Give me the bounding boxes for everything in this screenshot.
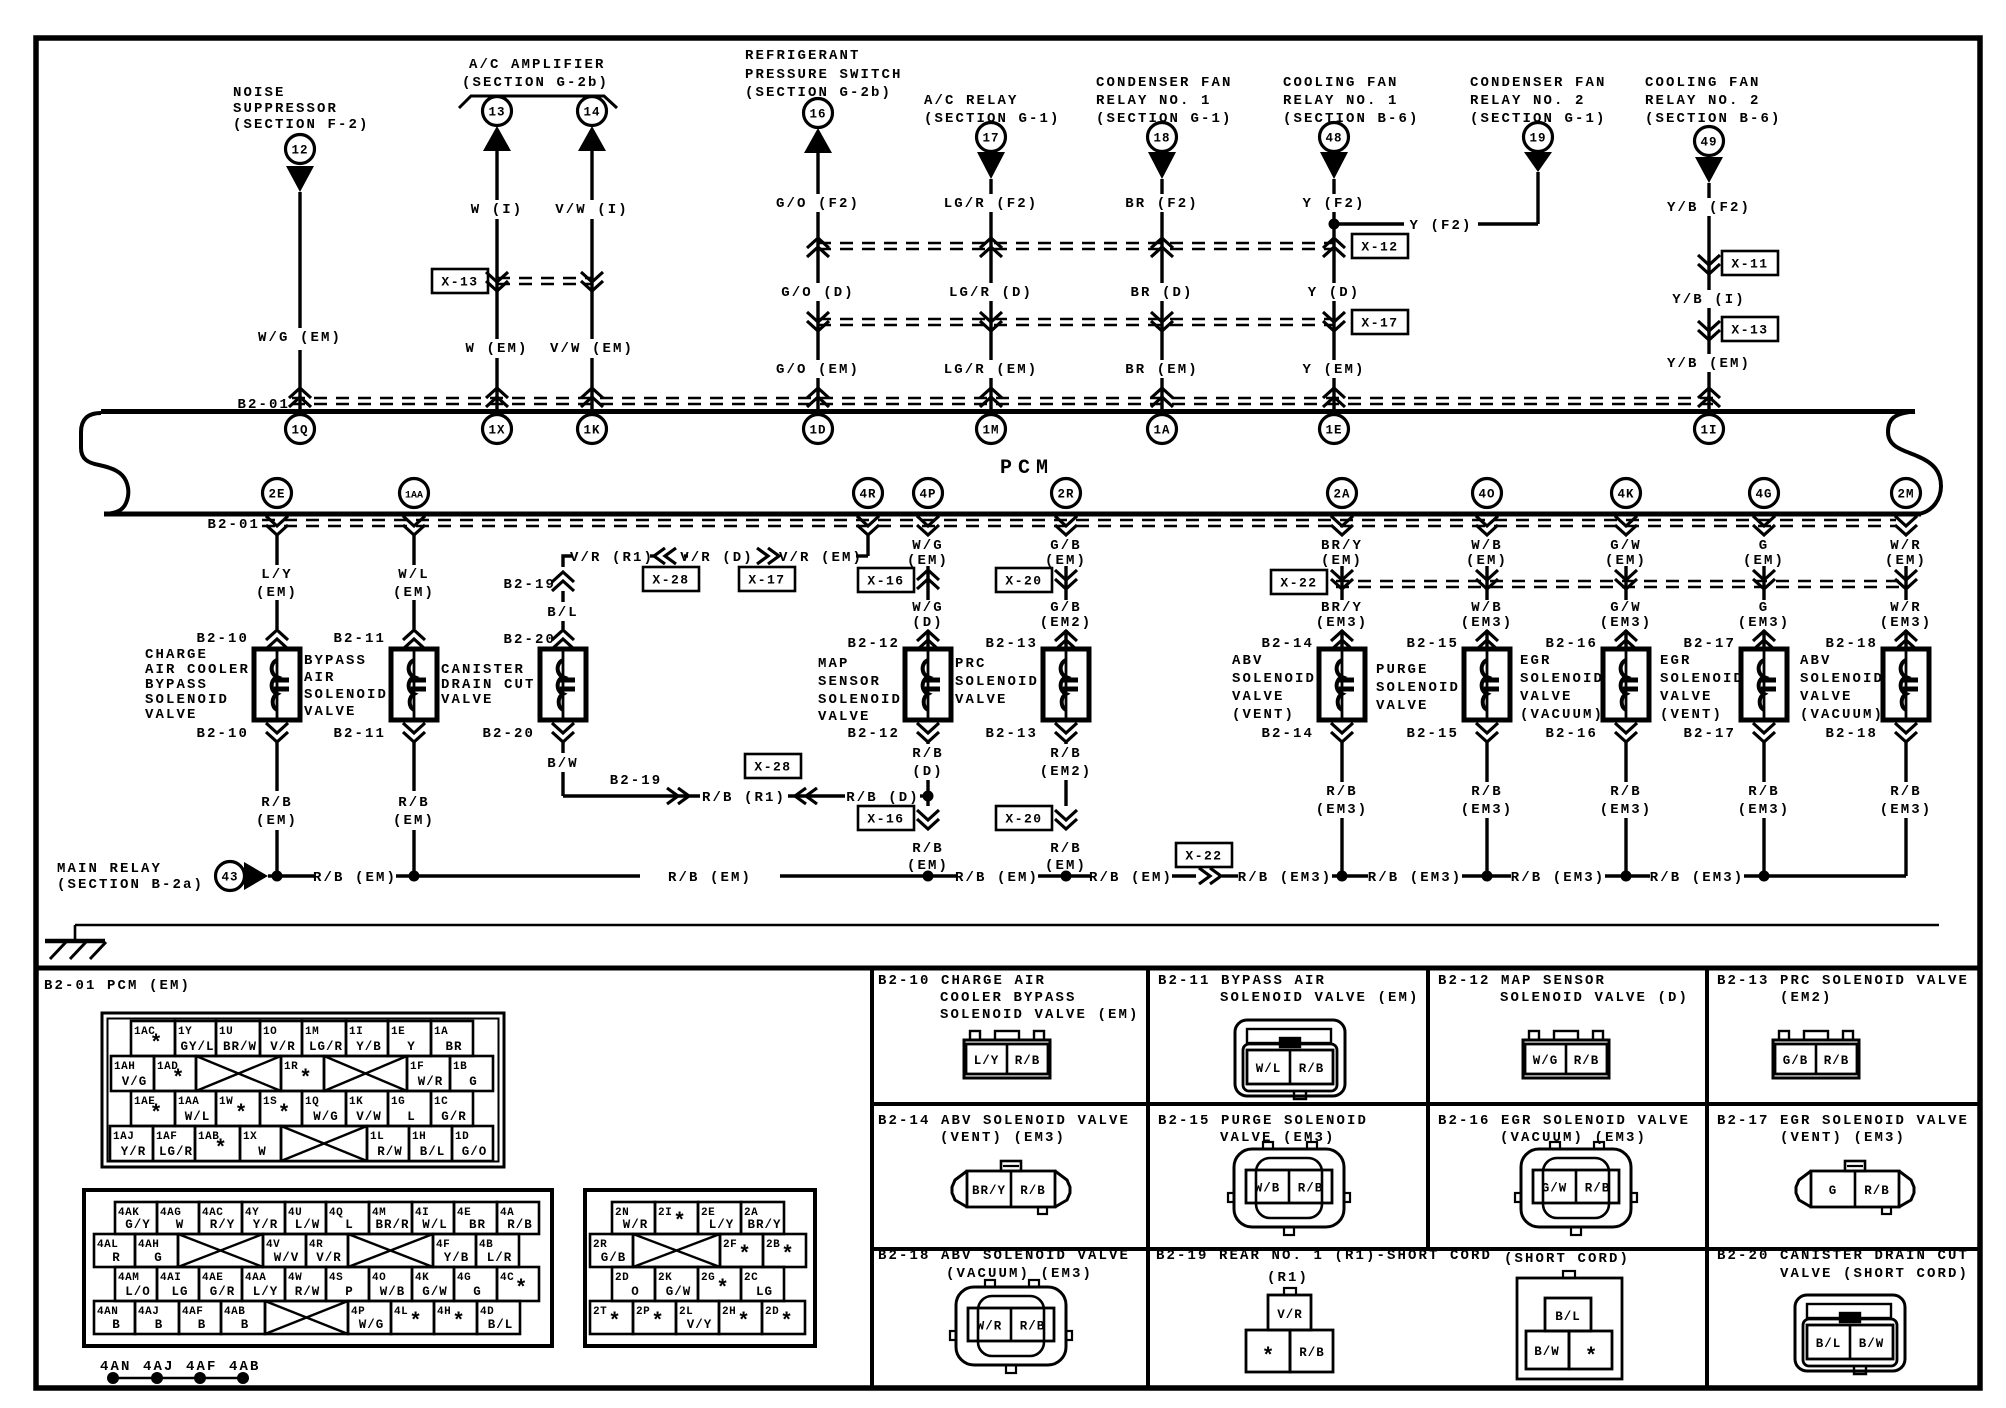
svg-text:B2-15: B2-15	[1406, 726, 1459, 742]
svg-text:1D: 1D	[455, 1131, 469, 1143]
solenoid L4 map sensor	[905, 649, 951, 720]
pin 4AC = R/Y	[199, 1202, 242, 1234]
junction 2A return	[1337, 871, 1348, 882]
unused pin block	[633, 1234, 720, 1267]
pin 4S = P	[326, 1267, 369, 1301]
svg-text:(SECTION G-1): (SECTION G-1)	[924, 111, 1061, 127]
svg-text:1A: 1A	[1153, 424, 1170, 438]
brace over A/C amplifier pins	[459, 96, 617, 108]
connector circle 16	[804, 99, 833, 128]
svg-text:2K: 2K	[658, 1272, 672, 1284]
svg-text:B: B	[198, 1318, 207, 1332]
svg-text:R/B: R/B	[1824, 1054, 1850, 1068]
svg-text:*: *	[299, 1068, 312, 1091]
svg-text:SOLENOID: SOLENOID	[304, 687, 388, 703]
connector circle 14	[578, 97, 607, 126]
svg-text:R/B (EM3): R/B (EM3)	[1368, 870, 1463, 886]
svg-text:V/G: V/G	[122, 1075, 148, 1089]
svg-text:PRESSURE SWITCH: PRESSURE SWITCH	[745, 67, 903, 83]
svg-text:X-13: X-13	[441, 275, 478, 290]
PCM harness dashed pair above top bus	[292, 397, 1720, 400]
svg-text:R/B: R/B	[1585, 1182, 1611, 1196]
svg-text:R/B: R/B	[1020, 1184, 1046, 1198]
wire Y from 48 to PCM 1E	[1332, 179, 1335, 194]
wire G/W (EM) from PCM toward B2-16	[1624, 566, 1627, 600]
svg-text:X-28: X-28	[652, 573, 689, 588]
short cord run R/B (R1)-(D)	[563, 794, 700, 797]
svg-text:4AA: 4AA	[245, 1272, 266, 1284]
svg-text:4K: 4K	[415, 1272, 429, 1284]
svg-text:VALVE: VALVE	[441, 692, 494, 708]
pin 4AM = L/O	[115, 1267, 157, 1301]
svg-text:W/G: W/G	[912, 600, 944, 616]
harness run X-12 with splice chevrons	[818, 242, 1334, 245]
svg-text:L/Y: L/Y	[253, 1285, 279, 1299]
svg-text:4W: 4W	[288, 1272, 302, 1284]
svg-text:1E: 1E	[391, 1026, 405, 1038]
svg-text:SOLENOID: SOLENOID	[818, 692, 902, 708]
svg-text:B2-17: B2-17	[1683, 726, 1736, 742]
pin 2N = W/R	[612, 1202, 655, 1234]
svg-text:COOLING FAN: COOLING FAN	[1645, 75, 1761, 91]
svg-text:2R: 2R	[1057, 488, 1074, 502]
svg-text:W: W	[258, 1145, 267, 1159]
svg-text:V/W (I): V/W (I)	[555, 202, 629, 218]
svg-text:V/W: V/W	[356, 1110, 382, 1124]
pin 2C = LG	[741, 1267, 784, 1301]
junction with short cord run	[923, 791, 934, 802]
svg-text:(EM3): (EM3)	[1461, 802, 1514, 818]
svg-text:W/L: W/L	[398, 567, 430, 583]
svg-text:(EM): (EM)	[256, 813, 298, 829]
ground pin dot 4AJ	[151, 1372, 163, 1384]
svg-text:B2-15 PURGE SOLENOID: B2-15 PURGE SOLENOID	[1158, 1113, 1368, 1129]
svg-text:W/L: W/L	[185, 1110, 211, 1124]
pin 2K = G/W	[655, 1267, 698, 1301]
PCM pin 2A chevron below lower bus	[1331, 516, 1353, 535]
svg-text:B/L: B/L	[420, 1145, 446, 1159]
svg-text:1R: 1R	[284, 1061, 298, 1073]
svg-text:(VACUUM) (EM3): (VACUUM) (EM3)	[1500, 1130, 1647, 1146]
connector B2-10 drawing	[964, 1031, 1050, 1078]
svg-text:A/C AMPLIFIER: A/C AMPLIFIER	[469, 57, 606, 73]
svg-text:1Q: 1Q	[305, 1096, 319, 1108]
svg-text:R/B: R/B	[1050, 746, 1082, 762]
svg-text:(VENT): (VENT)	[1232, 707, 1295, 723]
svg-text:BR: BR	[469, 1218, 486, 1232]
svg-text:X-20: X-20	[1005, 812, 1042, 827]
svg-text:B2-12: B2-12	[847, 636, 900, 652]
arrow from pin 49	[1695, 157, 1723, 183]
node B2-13 lower	[1055, 723, 1077, 742]
pin 1C = G/R	[431, 1091, 473, 1126]
svg-text:B/W: B/W	[1534, 1345, 1560, 1359]
wire W/L (EM) from PCM 1AA	[412, 535, 415, 565]
pin 4E = BR	[454, 1202, 497, 1234]
solenoid B2-15	[1464, 649, 1510, 720]
pin 1O = V/R	[260, 1021, 302, 1056]
pin 2E = L/Y	[698, 1202, 741, 1234]
svg-text:Y/B (EM): Y/B (EM)	[1667, 356, 1751, 372]
table vertical divider x=1707	[1705, 968, 1709, 1388]
svg-text:(VACUUM): (VACUUM)	[1520, 707, 1604, 723]
svg-text:4K: 4K	[1617, 488, 1634, 502]
svg-text:2A: 2A	[1333, 488, 1350, 502]
svg-text:Y/R: Y/R	[121, 1145, 147, 1159]
svg-text:17: 17	[982, 132, 999, 146]
pin 2H = *	[719, 1301, 762, 1334]
ground bus R/B (EM) segments	[268, 874, 314, 877]
pin 1E = Y	[388, 1021, 431, 1056]
PCM pin 1E	[1320, 415, 1349, 444]
svg-text:SUPPRESSOR: SUPPRESSOR	[233, 101, 338, 117]
svg-text:SOLENOID: SOLENOID	[1520, 671, 1604, 687]
svg-text:CONDENSER FAN: CONDENSER FAN	[1096, 75, 1233, 91]
svg-text:LG/R: LG/R	[309, 1040, 343, 1054]
svg-text:BR/Y: BR/Y	[747, 1218, 781, 1232]
svg-text:R/B: R/B	[1299, 1346, 1325, 1360]
pin 4B = L/R	[476, 1234, 519, 1267]
svg-text:(EM3): (EM3)	[1880, 802, 1933, 818]
PCM pin 4R chevron below lower bus	[857, 516, 879, 535]
pin 4A = R/B	[497, 1202, 539, 1234]
wire R/B (EM) below B2-10	[275, 742, 278, 791]
junction 2E return	[272, 871, 283, 882]
svg-text:B2-01 PCM (EM): B2-01 PCM (EM)	[44, 978, 191, 994]
pin 4K = G/W	[412, 1267, 454, 1301]
svg-text:4D: 4D	[480, 1306, 494, 1318]
PCM harness dashed pair below lower bus	[262, 519, 1896, 522]
svg-text:MAP: MAP	[818, 656, 850, 672]
svg-text:B: B	[112, 1318, 121, 1332]
svg-text:4B: 4B	[479, 1239, 493, 1251]
svg-text:*: *	[608, 1311, 621, 1334]
svg-text:G: G	[473, 1285, 482, 1299]
svg-text:COOLER BYPASS: COOLER BYPASS	[940, 990, 1077, 1006]
svg-text:Y (EM): Y (EM)	[1302, 362, 1365, 378]
node B2-14 lower	[1331, 723, 1353, 742]
svg-text:AIR COOLER: AIR COOLER	[145, 662, 250, 678]
pin 1I = Y/B	[346, 1021, 388, 1056]
junction 4G return	[1759, 871, 1770, 882]
wire G/O from 16 to PCM 1D	[816, 153, 819, 194]
chevron out to R1	[667, 788, 689, 804]
svg-text:R/B: R/B	[507, 1218, 533, 1232]
table vertical divider x=1148	[1146, 968, 1150, 1388]
wire R/B (D)	[926, 742, 929, 744]
svg-text:2D: 2D	[615, 1272, 629, 1284]
svg-text:L: L	[407, 1110, 416, 1124]
svg-text:B2-20 CANISTER DRAIN CUT: B2-20 CANISTER DRAIN CUT	[1717, 1248, 1969, 1264]
svg-text:(D): (D)	[912, 764, 944, 780]
svg-text:VALVE (EM3): VALVE (EM3)	[1220, 1130, 1336, 1146]
svg-text:B2-14 ABV SOLENOID VALVE: B2-14 ABV SOLENOID VALVE	[878, 1113, 1130, 1129]
svg-text:SOLENOID VALVE (D): SOLENOID VALVE (D)	[1500, 990, 1689, 1006]
pin 1AJ = Y/R	[110, 1126, 153, 1161]
svg-text:G/B: G/B	[601, 1251, 627, 1265]
svg-text:1K: 1K	[583, 424, 600, 438]
svg-text:*: *	[235, 1103, 248, 1126]
svg-text:B2-20: B2-20	[482, 726, 535, 742]
svg-text:R/B (EM3): R/B (EM3)	[1650, 870, 1745, 886]
svg-text:L/Y: L/Y	[261, 567, 293, 583]
svg-text:R/B: R/B	[1015, 1054, 1041, 1068]
PCM pin 2E	[263, 479, 292, 508]
svg-text:R/B: R/B	[912, 841, 944, 857]
connector B2-17 drawing	[1796, 1161, 1914, 1214]
svg-text:4AL: 4AL	[97, 1239, 118, 1251]
svg-text:(EM): (EM)	[1885, 553, 1927, 569]
svg-text:X-20: X-20	[1005, 574, 1042, 589]
svg-text:1AF: 1AF	[156, 1131, 177, 1143]
svg-text:G/R: G/R	[441, 1110, 467, 1124]
solenoid B2-16	[1603, 649, 1649, 720]
svg-text:CONDENSER FAN: CONDENSER FAN	[1470, 75, 1607, 91]
svg-text:16: 16	[809, 108, 826, 122]
node B2-12 lower	[917, 723, 939, 742]
splice chevron X-22 on BR/Y wire	[1331, 570, 1353, 589]
svg-text:G/O: G/O	[462, 1145, 488, 1159]
svg-text:W/R: W/R	[1890, 538, 1922, 554]
svg-text:VALVE: VALVE	[955, 692, 1008, 708]
svg-text:X-11: X-11	[1731, 257, 1768, 272]
svg-text:BR (D): BR (D)	[1130, 285, 1193, 301]
svg-text:Y/B (I): Y/B (I)	[1672, 292, 1746, 308]
svg-text:R/W: R/W	[295, 1285, 321, 1299]
connector circle 48	[1320, 123, 1349, 152]
svg-text:X-12: X-12	[1361, 240, 1398, 255]
svg-text:BR: BR	[445, 1040, 462, 1054]
PCM pin 4G chevron below lower bus	[1753, 516, 1775, 535]
junction 1AA return	[409, 871, 420, 882]
splice X-17 on V/R run	[757, 548, 779, 564]
svg-text:BYPASS: BYPASS	[304, 653, 367, 669]
PCM pin 2M	[1892, 479, 1921, 508]
svg-text:1Q: 1Q	[291, 424, 308, 438]
connector B2-01 grid 2 outer border	[84, 1190, 552, 1346]
svg-text:W/R: W/R	[623, 1218, 649, 1232]
svg-text:B2-13: B2-13	[985, 726, 1038, 742]
svg-text:W/L: W/L	[1256, 1062, 1282, 1076]
pin 4Q = L	[326, 1202, 369, 1234]
svg-text:(EM): (EM)	[1605, 553, 1647, 569]
svg-text:*: *	[1585, 1346, 1598, 1369]
svg-text:4Q: 4Q	[329, 1207, 343, 1219]
pin 1Y = GY/L	[175, 1021, 216, 1056]
svg-text:2H: 2H	[722, 1306, 736, 1318]
svg-text:4O: 4O	[372, 1272, 386, 1284]
PCM pin 1M chevron at top bus	[980, 388, 1002, 407]
PCM pin 1D chevron at top bus	[807, 388, 829, 407]
svg-text:V/R (R1): V/R (R1)	[570, 550, 654, 566]
svg-text:G: G	[469, 1075, 478, 1089]
table vertical divider x=1428	[1426, 968, 1430, 1249]
table section top border	[36, 966, 1980, 971]
pin 4D = B/L	[477, 1301, 520, 1334]
pin 1D = G/O	[452, 1126, 493, 1161]
svg-text:1C: 1C	[434, 1096, 448, 1108]
svg-text:V/R (D): V/R (D)	[680, 550, 754, 566]
connector circle 17	[977, 123, 1006, 152]
svg-text:(SECTION G-2b): (SECTION G-2b)	[462, 75, 609, 91]
pin 4AJ = B	[135, 1301, 179, 1334]
svg-text:R/B (EM): R/B (EM)	[955, 870, 1039, 886]
svg-text:R/B: R/B	[1299, 1062, 1325, 1076]
svg-text:VALVE: VALVE	[1232, 689, 1285, 705]
svg-text:V/R (EM): V/R (EM)	[779, 550, 863, 566]
svg-text:4O: 4O	[1478, 488, 1495, 502]
wire V/W from 14 to PCM 1K	[590, 151, 593, 200]
svg-text:RELAY NO. 2: RELAY NO. 2	[1470, 93, 1586, 109]
svg-text:(EM): (EM)	[1743, 553, 1785, 569]
svg-text:X-28: X-28	[754, 760, 791, 775]
svg-text:LG/R (F2): LG/R (F2)	[944, 196, 1039, 212]
svg-text:B2-17: B2-17	[1683, 636, 1736, 652]
svg-text:W/B: W/B	[1255, 1182, 1281, 1196]
pin 4H = *	[434, 1301, 477, 1334]
svg-text:19: 19	[1529, 132, 1546, 146]
svg-text:X-22: X-22	[1185, 849, 1222, 864]
wire W/R (EM) from PCM toward B2-18	[1904, 566, 1907, 600]
svg-text:VALVE: VALVE	[145, 707, 198, 723]
node B2-10 lower	[266, 723, 288, 742]
junction 2R return	[1061, 871, 1072, 882]
svg-text:G/W: G/W	[1610, 538, 1642, 554]
svg-text:LG/R (D): LG/R (D)	[949, 285, 1033, 301]
ground pin dot 4AB	[237, 1372, 249, 1384]
svg-text:B/L: B/L	[488, 1318, 514, 1332]
svg-text:SOLENOID: SOLENOID	[955, 674, 1039, 690]
PCM pin 1AA	[400, 479, 429, 508]
wire W from 13 to PCM 1X	[495, 151, 498, 200]
splice chevron X-22 on G wire	[1753, 570, 1775, 589]
svg-text:VALVE: VALVE	[1376, 698, 1429, 714]
splice X-28 on short cord run	[795, 788, 817, 804]
pin 1S = *	[260, 1091, 302, 1126]
svg-text:2I: 2I	[658, 1207, 672, 1219]
svg-text:R/B: R/B	[1890, 784, 1922, 800]
connector B2-20 drawing	[1795, 1295, 1905, 1374]
svg-text:G: G	[1829, 1184, 1838, 1198]
PCM pin 2A	[1328, 479, 1357, 508]
connector B2-12 drawing	[1523, 1031, 1609, 1078]
svg-text:G/O (D): G/O (D)	[781, 285, 855, 301]
svg-text:(VACUUM) (EM3): (VACUUM) (EM3)	[946, 1266, 1093, 1282]
svg-text:*: *	[780, 1311, 793, 1334]
svg-text:Y (F2): Y (F2)	[1409, 218, 1472, 234]
pin 4AK = G/Y	[115, 1202, 157, 1234]
svg-text:(EM3): (EM3)	[1880, 615, 1933, 631]
PCM pin 1E chevron at top bus	[1323, 388, 1345, 407]
svg-text:EGR: EGR	[1660, 653, 1692, 669]
svg-text:12: 12	[291, 144, 308, 158]
junction 4O return	[1482, 871, 1493, 882]
connector circle 19	[1524, 123, 1553, 152]
solenoid B2-17	[1741, 649, 1787, 720]
svg-text:*: *	[172, 1068, 185, 1091]
wire G/B from PCM 2R	[1064, 566, 1067, 600]
ground pin dot 4AF	[194, 1372, 206, 1384]
pin 4O = W/B	[369, 1267, 412, 1301]
pin 2R = G/B	[590, 1234, 633, 1267]
svg-text:BR (F2): BR (F2)	[1125, 196, 1199, 212]
svg-text:SOLENOID: SOLENOID	[1232, 671, 1316, 687]
solenoid L1 charge air cooler bypass	[254, 649, 300, 720]
svg-text:(EM): (EM)	[907, 553, 949, 569]
svg-text:4G: 4G	[457, 1272, 471, 1284]
svg-text:R/B: R/B	[1748, 784, 1780, 800]
svg-text:W/R: W/R	[1890, 600, 1922, 616]
svg-text:W (I): W (I)	[471, 202, 524, 218]
pin 4C = *	[497, 1267, 539, 1301]
svg-text:X-13: X-13	[1731, 323, 1768, 338]
svg-text:4V: 4V	[266, 1239, 280, 1251]
svg-text:B2-16: B2-16	[1545, 726, 1598, 742]
svg-text:R/B: R/B	[1050, 841, 1082, 857]
svg-text:Y: Y	[407, 1040, 416, 1054]
connector B2-13 drawing	[1773, 1031, 1859, 1078]
svg-text:R/W: R/W	[377, 1145, 403, 1159]
svg-text:ABV: ABV	[1800, 653, 1832, 669]
svg-text:LG/R (EM): LG/R (EM)	[944, 362, 1039, 378]
svg-text:L/W: L/W	[295, 1218, 321, 1232]
svg-text:1AA: 1AA	[178, 1096, 199, 1108]
svg-text:V/R: V/R	[1277, 1308, 1303, 1322]
svg-text:PURGE: PURGE	[1376, 662, 1429, 678]
table row divider y=1104	[872, 1102, 1980, 1106]
svg-text:R: R	[112, 1251, 121, 1265]
svg-text:49: 49	[1700, 136, 1717, 150]
svg-text:4R: 4R	[309, 1239, 323, 1251]
svg-text:(VENT) (EM3): (VENT) (EM3)	[1780, 1130, 1906, 1146]
pin 4M = BR/R	[369, 1202, 412, 1234]
PCM pin 1A	[1148, 415, 1177, 444]
svg-text:G/W: G/W	[422, 1285, 448, 1299]
svg-text:*: *	[737, 1311, 750, 1334]
svg-text:4AH: 4AH	[138, 1239, 159, 1251]
svg-text:VALVE: VALVE	[1520, 689, 1573, 705]
svg-text:1M: 1M	[305, 1026, 319, 1038]
pin 2P = *	[633, 1301, 676, 1334]
connector B2-01 grid 1 outer border	[102, 1013, 504, 1167]
svg-text:BR/R: BR/R	[375, 1218, 409, 1232]
svg-text:V/R: V/R	[270, 1040, 296, 1054]
pin 4AF = B	[179, 1301, 221, 1334]
svg-text:B/L: B/L	[1816, 1337, 1842, 1351]
svg-text:*: *	[150, 1103, 163, 1126]
unused pin block	[265, 1301, 348, 1334]
svg-text:W/G (EM): W/G (EM)	[258, 330, 342, 346]
svg-text:B2-18: B2-18	[1825, 726, 1878, 742]
svg-text:V/Y: V/Y	[687, 1318, 713, 1332]
wire L/Y (EM) from PCM 2E	[275, 535, 278, 565]
svg-text:4AF: 4AF	[182, 1306, 203, 1318]
svg-text:MAIN RELAY: MAIN RELAY	[57, 861, 162, 877]
svg-text:W/V: W/V	[274, 1251, 300, 1265]
svg-text:1X: 1X	[243, 1131, 257, 1143]
splice X-13 between pins 13/14	[497, 277, 592, 280]
svg-text:18: 18	[1153, 132, 1170, 146]
arrow from pin 19	[1524, 152, 1552, 172]
svg-text:2E: 2E	[268, 488, 285, 502]
PCM pin 2M chevron below lower bus	[1895, 516, 1917, 535]
arrow into pin 16	[804, 128, 832, 153]
svg-text:G/R: G/R	[210, 1285, 236, 1299]
wire R/B (EM3)	[1624, 742, 1627, 782]
PCM pin 1K	[578, 415, 607, 444]
wire R/B (EM3)	[1904, 742, 1907, 782]
pin 2G = *	[698, 1267, 741, 1301]
